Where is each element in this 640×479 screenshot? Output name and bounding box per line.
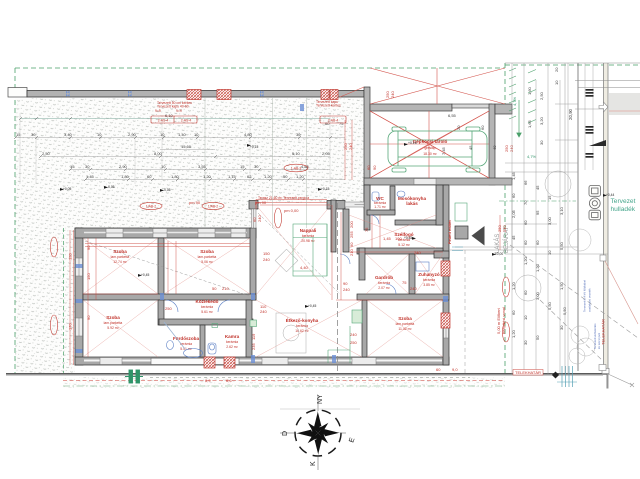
svg-text:Közlekedő: Közlekedő [196, 299, 219, 304]
svg-text:1,20: 1,20 [264, 174, 273, 179]
svg-text:2,90: 2,90 [119, 164, 128, 169]
svg-text:10: 10 [161, 164, 166, 169]
svg-text:3,40: 3,40 [64, 132, 73, 137]
svg-text:10: 10 [523, 315, 528, 320]
svg-text:40: 40 [492, 145, 497, 150]
svg-text:1,45: 1,45 [86, 174, 95, 179]
svg-text:NY: NY [317, 394, 324, 404]
svg-text:1,50: 1,50 [559, 281, 564, 290]
svg-text:3,10: 3,10 [559, 206, 564, 215]
svg-text:Nappali: Nappali [300, 228, 317, 233]
svg-text:120: 120 [68, 253, 73, 260]
svg-text:240: 240 [263, 257, 270, 262]
svg-text:6,9: 6,9 [205, 378, 211, 383]
svg-text:Tervezett kapu 40-60: Tervezett kapu 40-60 [157, 105, 189, 109]
svg-text:5.06 m²: 5.06 m² [201, 260, 213, 264]
svg-text:-0,05: -0,05 [107, 185, 115, 189]
svg-text:2.07 m²: 2.07 m² [378, 286, 390, 290]
svg-text:2-AS-4: 2-AS-4 [158, 118, 169, 122]
svg-text:5.61 m²: 5.61 m² [201, 310, 213, 314]
svg-text:240: 240 [350, 332, 357, 337]
svg-text:240: 240 [502, 225, 507, 232]
svg-text:45: 45 [468, 145, 473, 150]
svg-text:1,80: 1,80 [121, 174, 130, 179]
svg-text:D: D [282, 431, 289, 436]
svg-text:75: 75 [364, 227, 369, 232]
svg-text:7,45: 7,45 [441, 146, 446, 155]
svg-text:90: 90 [86, 245, 91, 250]
svg-text:kerámia: kerámia [226, 340, 238, 344]
svg-text:3,00: 3,00 [547, 216, 552, 225]
svg-text:hulladék: hulladék [611, 206, 636, 213]
svg-text:4,7%: 4,7% [512, 96, 517, 106]
svg-text:15,60: 15,60 [181, 144, 192, 149]
svg-text:pm 90: pm 90 [189, 200, 201, 205]
svg-text:240: 240 [414, 250, 421, 255]
svg-text:±0,00: ±0,00 [495, 252, 503, 256]
svg-text:lam.parketta: lam.parketta [396, 322, 415, 326]
svg-text:3,00: 3,00 [535, 291, 540, 300]
svg-text:TELEKHATÁR: TELEKHATÁR [601, 319, 606, 345]
svg-text:1,60: 1,60 [527, 86, 532, 95]
svg-text:15: 15 [240, 164, 245, 169]
svg-text:75: 75 [402, 280, 407, 285]
svg-text:Szoba: Szoba [106, 315, 120, 320]
svg-text:150: 150 [263, 251, 270, 256]
svg-text:6,55: 6,55 [448, 113, 457, 118]
svg-text:90: 90 [86, 315, 91, 320]
svg-text:5.12 m²: 5.12 m² [398, 243, 410, 247]
svg-text:1-AB-3: 1-AB-3 [291, 166, 302, 170]
svg-text:50: 50 [283, 174, 288, 179]
svg-text:240: 240 [343, 287, 350, 292]
svg-text:15: 15 [70, 164, 75, 169]
svg-text:6,10: 6,10 [165, 113, 174, 118]
svg-text:200: 200 [349, 221, 354, 228]
svg-text:4,80: 4,80 [244, 132, 253, 137]
svg-text:20: 20 [554, 67, 559, 72]
svg-text:-0,05: -0,05 [163, 188, 171, 192]
svg-text:235: 235 [251, 343, 256, 350]
svg-text:4,7%: 4,7% [527, 154, 537, 159]
svg-text:1,20: 1,20 [203, 174, 212, 179]
svg-text:Tervezett 0,4 kV földkábel: Tervezett 0,4 kV földkábel [583, 280, 587, 312]
svg-text:150: 150 [86, 273, 91, 280]
svg-text:50: 50 [212, 286, 217, 291]
svg-text:240: 240 [390, 91, 395, 98]
svg-text:2,05: 2,05 [322, 151, 331, 156]
svg-text:240: 240 [257, 215, 262, 222]
svg-text:Fedett előtér: Fedett előtér [447, 220, 452, 244]
svg-text:1,20: 1,20 [296, 174, 305, 179]
svg-text:+0,45: +0,45 [404, 236, 413, 240]
svg-text:60: 60 [436, 367, 441, 372]
svg-text:greslap: greslap [424, 146, 435, 150]
svg-text:50: 50 [535, 335, 540, 340]
svg-text:Gardrób: Gardrób [375, 275, 393, 280]
svg-text:2,50: 2,50 [539, 91, 544, 100]
svg-text:beépítési vonal: beépítési vonal [501, 307, 506, 334]
svg-text:15: 15 [547, 195, 552, 200]
svg-text:9=9: 9=9 [155, 109, 161, 113]
svg-text:5.92 m²: 5.92 m² [107, 326, 119, 330]
svg-text:2-AS-4: 2-AS-4 [181, 118, 192, 122]
svg-text:5.51 m²: 5.51 m² [180, 347, 192, 351]
svg-text:+0.16: +0.16 [408, 141, 417, 145]
svg-text:30: 30 [254, 164, 259, 169]
svg-text:10: 10 [554, 80, 559, 85]
svg-text:119: 119 [251, 333, 256, 340]
svg-text:Tervezet: Tervezet [611, 198, 636, 205]
svg-text:2.62 m²: 2.62 m² [226, 345, 238, 349]
svg-text:2-AB-4: 2-AB-4 [328, 118, 339, 122]
svg-text:95: 95 [535, 210, 540, 215]
svg-text:90: 90 [372, 165, 377, 170]
svg-text:30: 30 [539, 140, 544, 145]
svg-text:5,50: 5,50 [547, 301, 552, 310]
svg-text:1,80: 1,80 [171, 174, 180, 179]
svg-text:Szoba: Szoba [113, 249, 127, 254]
svg-text:9,0: 9,0 [452, 367, 458, 372]
svg-text:30: 30 [85, 164, 90, 169]
svg-text:+0,45: +0,45 [308, 304, 317, 308]
svg-text:4,40: 4,40 [300, 265, 309, 270]
svg-text:Tervezett kerites: Tervezett kerites [316, 104, 341, 108]
svg-text:30: 30 [559, 325, 564, 330]
svg-text:60: 60 [511, 193, 516, 198]
svg-text:kerámia: kerámia [296, 324, 308, 328]
svg-text:62: 62 [247, 174, 252, 179]
svg-text:és szennyvíz: és szennyvíz [597, 332, 601, 349]
svg-text:240: 240 [509, 145, 514, 152]
svg-text:1.71 m²: 1.71 m² [374, 205, 386, 209]
svg-text:2,90: 2,90 [128, 132, 137, 137]
svg-text:90: 90 [349, 242, 354, 247]
svg-text:16.62 m²: 16.62 m² [295, 329, 309, 333]
svg-text:+0,15: +0,15 [321, 187, 330, 191]
svg-text:45: 45 [511, 235, 516, 240]
svg-text:45: 45 [535, 185, 540, 190]
svg-text:lam.parketta: lam.parketta [111, 255, 130, 259]
svg-text:90: 90 [343, 281, 348, 286]
svg-text:+0,45: +0,45 [141, 273, 150, 277]
svg-text:+0,44: +0,44 [606, 193, 615, 197]
svg-text:1,20: 1,20 [511, 281, 516, 290]
svg-text:lam.parketta: lam.parketta [198, 255, 217, 259]
svg-text:1,65: 1,65 [527, 119, 532, 128]
svg-text:1,45: 1,45 [383, 236, 392, 241]
svg-text:9,50: 9,50 [562, 306, 567, 315]
svg-text:75: 75 [339, 121, 344, 126]
svg-text:1,45: 1,45 [511, 171, 516, 180]
svg-text:60: 60 [480, 125, 485, 130]
svg-text:1,40: 1,40 [178, 132, 187, 137]
svg-text:Szoba: Szoba [398, 316, 412, 321]
svg-text:60: 60 [535, 240, 540, 245]
svg-text:18.30 m²: 18.30 m² [423, 152, 437, 156]
svg-text:11.42 m²: 11.42 m² [398, 327, 412, 331]
svg-text:Étkező-konyha: Étkező-konyha [286, 316, 319, 323]
svg-text:100: 100 [395, 236, 402, 241]
svg-text:255: 255 [349, 231, 354, 238]
svg-text:20,90: 20,90 [568, 108, 573, 120]
svg-text:60: 60 [523, 290, 528, 295]
svg-text:170: 170 [68, 323, 73, 330]
svg-text:20: 20 [456, 125, 461, 130]
svg-text:240: 240 [260, 309, 267, 314]
svg-text:pm 90: pm 90 [255, 200, 267, 205]
svg-text:1/AB-2: 1/AB-2 [208, 204, 218, 208]
svg-text:9=9: 9=9 [176, 109, 182, 113]
svg-text:60: 60 [147, 174, 152, 179]
svg-text:2,05: 2,05 [511, 209, 516, 218]
svg-text:240: 240 [348, 143, 353, 150]
svg-text:1,15: 1,15 [228, 174, 237, 179]
svg-text:60: 60 [523, 240, 528, 245]
svg-text:5,50: 5,50 [559, 241, 564, 250]
svg-text:2,50: 2,50 [42, 151, 51, 156]
svg-text:kerámia: kerámia [423, 278, 435, 282]
svg-text:1/AB-2: 1/AB-2 [146, 204, 156, 208]
svg-text:3.85 m²: 3.85 m² [423, 283, 435, 287]
svg-text:3,20: 3,20 [539, 116, 544, 125]
svg-text:5,10: 5,10 [292, 151, 301, 156]
svg-text:TELEKHATÁR: TELEKHATÁR [515, 370, 541, 375]
svg-text:Szoba: Szoba [200, 249, 214, 254]
svg-text:Kamra: Kamra [225, 334, 240, 339]
svg-text:250: 250 [350, 340, 357, 345]
svg-text:+0,05: +0,05 [63, 187, 72, 191]
svg-text:20.98 m²: 20.98 m² [301, 239, 315, 243]
svg-text:66: 66 [523, 180, 528, 185]
svg-text:lam.parketta: lam.parketta [104, 321, 123, 325]
svg-text:lakás: lakás [406, 201, 418, 206]
svg-text:1,20: 1,20 [511, 329, 516, 338]
svg-text:60: 60 [523, 220, 528, 225]
svg-text:30: 30 [31, 132, 36, 137]
svg-text:210: 210 [222, 286, 229, 291]
svg-text:12.74 m²: 12.74 m² [113, 260, 127, 264]
svg-text:Zuhanyzó: Zuhanyzó [418, 272, 440, 277]
svg-text:csatlakozó vezeték: csatlakozó vezeték [588, 288, 592, 312]
svg-text:250: 250 [165, 306, 172, 311]
svg-text:+0,15: +0,15 [250, 145, 259, 149]
svg-text:pm 0,00: pm 0,00 [284, 208, 299, 213]
svg-text:30: 30 [523, 340, 528, 345]
svg-text:8,00: 8,00 [154, 151, 163, 156]
svg-text:60: 60 [366, 165, 371, 170]
svg-text:60: 60 [511, 310, 516, 315]
svg-text:Gépkocsi tároló: Gépkocsi tároló [413, 139, 448, 144]
svg-text:70: 70 [523, 200, 528, 205]
svg-text:1,20: 1,20 [523, 256, 528, 265]
svg-text:210: 210 [349, 249, 354, 256]
svg-text:3,55: 3,55 [198, 164, 207, 169]
svg-text:kerámia: kerámia [201, 305, 213, 309]
svg-text:240: 240 [410, 286, 417, 291]
svg-text:10: 10 [547, 250, 552, 255]
svg-text:K: K [310, 461, 317, 466]
svg-text:6,6: 6,6 [226, 378, 232, 383]
